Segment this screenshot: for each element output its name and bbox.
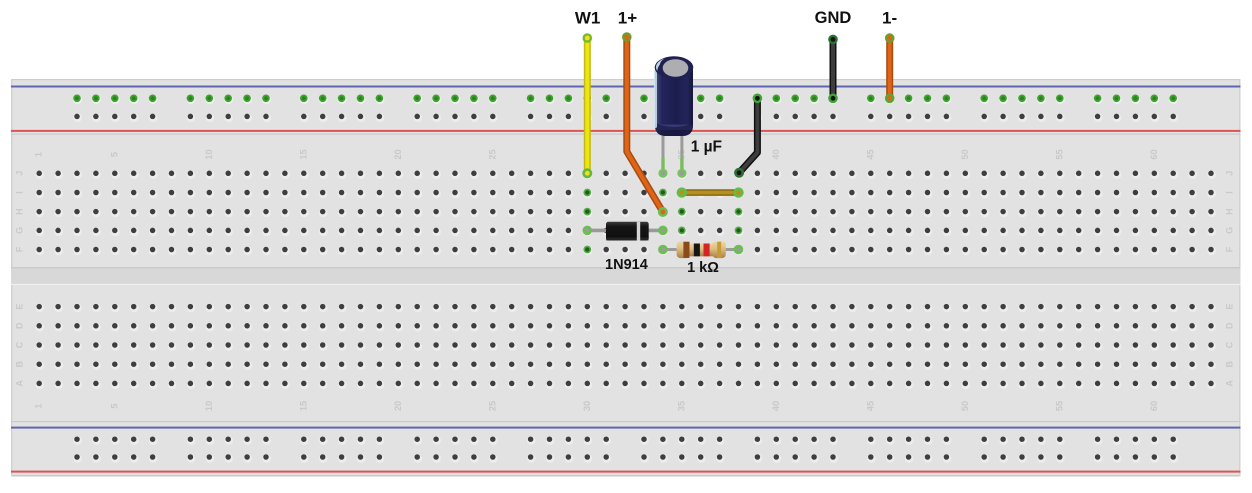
svg-text:C: C: [1225, 341, 1235, 348]
svg-text:B: B: [15, 360, 25, 367]
svg-text:H: H: [15, 208, 25, 215]
svg-text:45: 45: [865, 401, 875, 411]
svg-text:1 µF: 1 µF: [691, 138, 722, 155]
svg-text:J: J: [1225, 171, 1235, 176]
svg-text:1: 1: [34, 152, 44, 157]
svg-text:W1: W1: [575, 9, 601, 28]
svg-text:H: H: [1225, 208, 1235, 215]
svg-text:1 kΩ: 1 kΩ: [687, 260, 719, 276]
svg-text:G: G: [15, 227, 25, 234]
svg-text:F: F: [15, 246, 25, 252]
svg-text:15: 15: [298, 149, 308, 159]
svg-text:E: E: [1225, 304, 1235, 310]
svg-text:1: 1: [34, 403, 44, 408]
svg-text:E: E: [15, 304, 25, 310]
svg-text:45: 45: [865, 149, 875, 159]
svg-text:1-: 1-: [882, 9, 897, 28]
svg-text:F: F: [1225, 246, 1235, 252]
svg-text:15: 15: [298, 401, 308, 411]
svg-text:D: D: [1225, 322, 1235, 329]
svg-text:C: C: [15, 341, 25, 348]
svg-text:25: 25: [487, 149, 497, 159]
svg-text:60: 60: [1149, 401, 1159, 411]
svg-text:60: 60: [1149, 149, 1159, 159]
svg-text:D: D: [15, 322, 25, 329]
svg-text:20: 20: [393, 149, 403, 159]
svg-text:50: 50: [960, 149, 970, 159]
svg-text:A: A: [15, 380, 25, 387]
svg-text:1+: 1+: [618, 9, 637, 28]
svg-text:25: 25: [487, 401, 497, 411]
svg-text:B: B: [1225, 360, 1235, 367]
svg-text:40: 40: [771, 401, 781, 411]
svg-text:10: 10: [204, 401, 214, 411]
svg-text:G: G: [1225, 227, 1235, 234]
svg-text:30: 30: [582, 401, 592, 411]
svg-text:I: I: [15, 191, 25, 194]
svg-text:1N914: 1N914: [605, 257, 648, 273]
svg-text:5: 5: [109, 152, 119, 157]
svg-text:50: 50: [960, 401, 970, 411]
svg-text:GND: GND: [815, 9, 852, 27]
svg-text:55: 55: [1054, 401, 1064, 411]
svg-text:55: 55: [1054, 149, 1064, 159]
svg-text:J: J: [15, 171, 25, 176]
svg-text:40: 40: [771, 149, 781, 159]
svg-text:I: I: [1225, 191, 1235, 194]
svg-text:35: 35: [676, 401, 686, 411]
svg-text:10: 10: [204, 149, 214, 159]
svg-text:A: A: [1225, 380, 1235, 387]
svg-text:5: 5: [109, 403, 119, 408]
svg-text:20: 20: [393, 401, 403, 411]
